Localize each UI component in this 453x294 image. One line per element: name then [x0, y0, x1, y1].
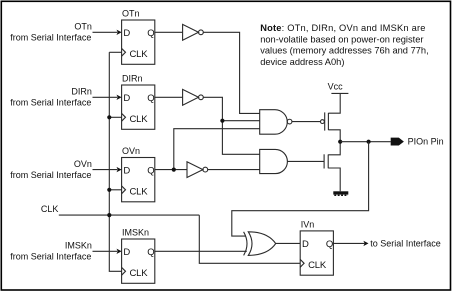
flip-flop IVn [300, 220, 333, 276]
svg-text:values (memory addresses 76h a: values (memory addresses 76h and 77h, [260, 46, 428, 56]
svg-text:CLK: CLK [41, 204, 59, 214]
svg-text:IVn: IVn [301, 220, 315, 230]
inverter U3 (OVn row) [187, 162, 208, 178]
svg-text:D: D [123, 166, 130, 177]
inverter U2 (DIRn row) [183, 89, 204, 105]
wire CLK to OVn [109, 189, 121, 191]
svg-text:D: D [123, 247, 130, 258]
wire NAND out to PMOS gate [292, 121, 321, 123]
wire OTn Q to inverter [155, 31, 183, 33]
svg-text:DIRn: DIRn [122, 74, 143, 84]
svg-text:CLK: CLK [308, 260, 327, 271]
node CLK junction OVn [107, 188, 111, 192]
svg-text:from Serial Interface: from Serial Interface [10, 252, 91, 262]
wire OVn D input [93, 169, 118, 171]
svg-text:OVn: OVn [74, 159, 92, 169]
wire feedback from pin node to XOR [232, 142, 369, 236]
svg-text:Vcc: Vcc [328, 82, 344, 92]
node junction DIRn branch [220, 119, 224, 123]
svg-text:IMSKn: IMSKn [122, 228, 149, 238]
svg-text:non-volatile based on power-on: non-volatile based on power-on register [260, 34, 423, 44]
Vcc [328, 82, 349, 94]
svg-text:from Serial Interface: from Serial Interface [10, 98, 91, 108]
svg-text:CLK: CLK [130, 49, 149, 60]
wire node to PIOn pin [340, 141, 391, 143]
note text [260, 23, 428, 67]
svg-text:DIRn: DIRn [71, 86, 92, 96]
ground [333, 191, 348, 195]
flip-flop OTn [122, 9, 155, 65]
wire IMSKn Q to XOR [155, 250, 247, 252]
wire CLK to OTn [109, 51, 121, 53]
node CLK junction DIRn [107, 115, 111, 119]
wire inverter U1 out to NAND top input [203, 32, 259, 113]
wire inverter U3 out to AND bottom input [208, 169, 260, 171]
svg-text:from Serial Interface: from Serial Interface [10, 170, 91, 180]
node junction OVn branch [172, 168, 176, 172]
flip-flop DIRn [122, 74, 155, 130]
svg-text:D: D [123, 93, 130, 104]
wire DIRn Q to inverter [155, 96, 183, 98]
wire CLK net [59, 214, 200, 216]
node CLK junction main [107, 213, 111, 217]
wire XOR out to IVn D [276, 242, 301, 244]
NAND gate G1 [260, 110, 292, 135]
svg-text:Q: Q [147, 28, 154, 39]
flip-flop IMSKn [122, 228, 155, 284]
svg-text:IMSKn: IMSKn [65, 240, 92, 250]
svg-text:OVn: OVn [122, 146, 140, 156]
svg-text:Q: Q [326, 239, 333, 250]
transistor Q2 NMOS [324, 142, 340, 192]
wire CLK trunk [109, 52, 121, 271]
wire CLK drop to IVn [199, 215, 300, 263]
svg-text:device address A0h): device address A0h) [260, 57, 344, 67]
wire OTn D input [93, 31, 118, 33]
wire branch to NAND middle input [222, 120, 259, 122]
wire IMSKn D input [93, 250, 118, 252]
svg-text:Q: Q [147, 247, 154, 258]
transistor Q1 PMOS [321, 93, 341, 141]
svg-text:D: D [302, 239, 309, 250]
svg-text:OTn: OTn [122, 9, 140, 19]
wire OVn Q branch up to NAND bottom input [174, 129, 260, 170]
svg-text:to Serial Interface: to Serial Interface [370, 238, 441, 248]
svg-text:D: D [123, 28, 130, 39]
wire CLK to DIRn [109, 116, 121, 118]
node feedback junction [367, 140, 371, 144]
svg-text:PIOn Pin: PIOn Pin [408, 137, 444, 147]
wire AND out to NMOS gate [287, 160, 324, 162]
wire IVn Q out [333, 242, 364, 244]
svg-text:Note: OTn, DIRn, OVn and IMSKn: Note: OTn, DIRn, OVn and IMSKn are [260, 23, 425, 33]
wire DIRn D input [93, 96, 118, 98]
svg-text:from Serial Interface: from Serial Interface [10, 33, 91, 43]
svg-text:CLK: CLK [130, 268, 149, 279]
svg-text:CLK: CLK [130, 114, 149, 125]
node drain junction [338, 140, 342, 144]
wire OVn Q to inverter [155, 169, 187, 171]
svg-text:Q: Q [147, 166, 154, 177]
svg-text:CLK: CLK [130, 187, 149, 198]
PIOn pin symbol [391, 138, 404, 146]
svg-text:OTn: OTn [74, 21, 92, 31]
svg-text:Q: Q [147, 93, 154, 104]
AND gate G2 [260, 149, 288, 173]
wire inverter U2 out down [203, 97, 259, 154]
inverter U1 (OTn row) [183, 24, 204, 40]
XOR gate G3 [244, 232, 276, 256]
flip-flop OVn [122, 146, 155, 202]
